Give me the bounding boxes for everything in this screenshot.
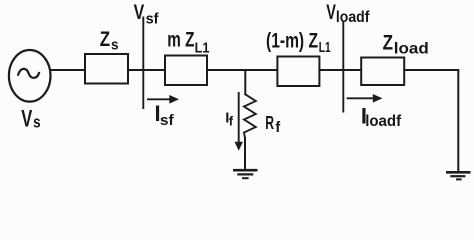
- svg-text:load: load: [394, 41, 429, 58]
- label Vloadf: [326, 1, 370, 26]
- svg-text:V: V: [21, 106, 32, 133]
- svg-text:V: V: [326, 1, 336, 24]
- svg-text:s: s: [111, 37, 119, 54]
- ground (right, below Zload): [446, 172, 471, 179]
- node Vsf (vertical line): [142, 18, 144, 109]
- resistor Rf (zigzag): [244, 94, 256, 138]
- wire Zload to right corner and down: [404, 70, 458, 171]
- label Rf: [265, 113, 280, 136]
- wire source to Zs: [50, 69, 85, 71]
- sine symbol: [18, 69, 39, 78]
- svg-text:Z: Z: [100, 28, 110, 51]
- wire (1-m)ZL1 to Zload: [319, 69, 361, 71]
- label Iloadf: [361, 104, 402, 131]
- svg-text:loadf: loadf: [365, 113, 402, 130]
- label (1-m)ZL1: [266, 29, 331, 56]
- label Zload: [383, 31, 429, 57]
- resistor Zs (box): [85, 54, 128, 84]
- node Vloadf (vertical line): [342, 22, 344, 112]
- wire mZL1 to node F: [207, 69, 277, 71]
- label Zs: [100, 28, 119, 53]
- svg-text:V: V: [134, 1, 145, 24]
- svg-text:sf: sf: [160, 112, 175, 129]
- label Isf: [155, 101, 175, 129]
- ac source Vs (circle): [9, 50, 51, 102]
- svg-text:L1: L1: [319, 39, 331, 56]
- label mZL1: [167, 28, 209, 56]
- impedance (1-m)ZL1 (box): [277, 57, 319, 87]
- label Vsf: [134, 1, 160, 27]
- ground (below Rf): [233, 170, 258, 178]
- svg-text:(1-m) Z: (1-m) Z: [266, 29, 318, 52]
- label If: [225, 109, 233, 128]
- svg-text:L1: L1: [195, 40, 210, 57]
- svg-text:Z: Z: [383, 31, 394, 54]
- wire Zs to mZL1: [128, 69, 165, 71]
- svg-text:m Z: m Z: [167, 28, 194, 51]
- svg-text:loadf: loadf: [336, 9, 370, 26]
- wire Rf to ground: [244, 138, 246, 169]
- impedance Zload (box): [361, 58, 404, 86]
- label Vs: [21, 106, 40, 133]
- svg-text:s: s: [33, 113, 41, 132]
- current arrow If (down): [235, 92, 243, 151]
- svg-text:sf: sf: [146, 11, 160, 28]
- current arrow Iloadf: [347, 94, 383, 103]
- svg-text:R: R: [265, 113, 274, 133]
- current arrow Isf: [147, 95, 179, 104]
- svg-text:f: f: [275, 120, 280, 136]
- svg-text:f: f: [229, 113, 234, 128]
- impedance mZL1 (box): [165, 56, 207, 86]
- wire branch down to Rf: [244, 70, 246, 94]
